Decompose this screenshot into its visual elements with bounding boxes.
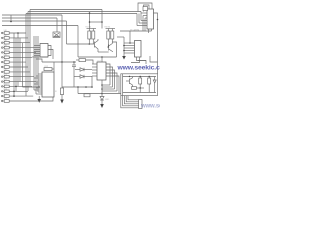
connector row 1 xyxy=(1,30,26,34)
wire stage link y22 xyxy=(90,21,103,23)
node mesh dot b xyxy=(15,86,17,88)
wire nested corner 3 xyxy=(124,96,138,104)
connector row 10 xyxy=(1,74,34,78)
wire U3 pin stub 2 xyxy=(143,15,147,17)
wire U4 left rail xyxy=(123,37,125,56)
wire R5 out xyxy=(86,60,94,64)
wire U4 bottom a xyxy=(137,57,147,64)
diode D3 xyxy=(153,80,156,83)
wire into bottom-left ground xyxy=(38,96,40,99)
resistor R4 (stage2 b) xyxy=(111,31,114,39)
wire U1 left pin 1 xyxy=(34,45,40,47)
node stage1 feed xyxy=(89,12,91,14)
wire U3 bottom pin b xyxy=(151,29,153,31)
wire R2 bottom xyxy=(92,39,94,44)
svg-text:IC 4069: IC 4069 xyxy=(130,28,140,32)
wire Q3 emitter xyxy=(130,83,133,88)
transistor Q2 xyxy=(108,45,110,51)
wire drop rail3 to Q1 base line xyxy=(66,21,68,44)
wire U4 pin 5 xyxy=(124,52,135,54)
wire top-left rail 1 xyxy=(2,14,62,16)
wire top bus line 2 xyxy=(28,11,141,13)
wire mid right corners a xyxy=(138,60,146,62)
wire U2 right pin 1 xyxy=(106,64,110,85)
wire D1 leads xyxy=(75,69,80,71)
IC U2 xyxy=(97,62,106,80)
node comb b xyxy=(101,88,103,90)
mesh vertical x20 xyxy=(19,38,21,82)
wire U5 pin 2 xyxy=(36,75,42,77)
wire U2 bottom drop xyxy=(101,80,103,96)
wire C1 plate bottom xyxy=(72,66,76,68)
wire Q3 base xyxy=(126,80,130,82)
wire top bus 3 left corner drop xyxy=(25,14,27,97)
wire D2 lead out xyxy=(84,76,92,78)
wire U5 pin 5 xyxy=(36,81,42,83)
wire staircase v x145 xyxy=(144,18,146,31)
connector row 2 xyxy=(1,35,28,39)
wire rail y62 xyxy=(42,61,76,63)
wire Q1 collector xyxy=(95,39,99,43)
wire U2 left pin 2 xyxy=(92,66,97,68)
wire U2 right pin 5 xyxy=(106,76,119,93)
wire U5 pin 11 xyxy=(36,93,42,95)
node Q3 top xyxy=(129,76,130,77)
wire block top rail xyxy=(123,76,156,78)
wire comb y87 xyxy=(102,86,113,88)
wire U4 pin 3 xyxy=(124,47,135,49)
wire U4 pin 2 xyxy=(124,45,135,47)
wire U2 right pin 4 xyxy=(106,73,117,91)
wire U5 top tie xyxy=(53,62,55,72)
wire staircase v x139 xyxy=(138,14,140,24)
node Q2 base node xyxy=(108,46,110,48)
wire R4 top stub xyxy=(111,29,113,32)
wire R6 down xyxy=(61,95,63,100)
left input rows xyxy=(1,30,36,102)
wire D1 bar xyxy=(83,68,85,71)
resistor R5 xyxy=(79,59,86,62)
wire U5 pin 8 xyxy=(36,87,42,89)
wire R5 in xyxy=(76,59,79,61)
wire U4 feed drop xyxy=(129,31,131,43)
wire U3 pin stub 4 xyxy=(141,20,147,22)
wire R9 stubs xyxy=(148,77,150,79)
capacitor C5 (top of U3) xyxy=(143,7,148,11)
wire Q2 emitter xyxy=(109,49,113,52)
wire stage2 top rail xyxy=(106,28,116,30)
node block top b xyxy=(149,76,150,77)
wire U3 top loop inner xyxy=(144,5,150,12)
transistor Q3 xyxy=(129,79,131,85)
wire U5 pin 3 xyxy=(34,77,42,79)
resistor R8 xyxy=(139,78,142,84)
wire U1 left pin 4 xyxy=(34,51,40,53)
IC U5 (main chip) xyxy=(42,72,54,97)
wire U3 pin stub 1 xyxy=(141,12,147,14)
wire U4 pin 1 xyxy=(124,42,135,44)
ground arrow bottom center xyxy=(100,104,104,108)
wire corner into rail y62 xyxy=(36,59,42,62)
connector row 4 xyxy=(1,45,34,49)
mesh vertical x38 xyxy=(37,36,39,92)
wire R1 top stub xyxy=(88,29,90,32)
mesh vertical x22 xyxy=(22,43,24,87)
wire U2 right pin 3 xyxy=(106,70,115,89)
wire Q1 base line xyxy=(67,43,95,45)
node bottom drop xyxy=(101,93,103,95)
wire U4 approach xyxy=(117,36,124,38)
node mesh dot d xyxy=(17,32,19,34)
mesh vertical x14 xyxy=(13,33,15,96)
wire U1 under bar xyxy=(32,56,48,58)
wire crystal internals xyxy=(54,33,59,37)
wire D1 lead out xyxy=(84,69,92,71)
connector row 14 xyxy=(1,93,33,97)
wire nested corner 4 xyxy=(126,96,138,102)
wire C1 down xyxy=(73,67,75,87)
wire D3 down xyxy=(154,83,156,93)
wire R9 bottom xyxy=(148,84,150,93)
wire block bottom rail xyxy=(123,92,156,94)
wire nested corner 5 xyxy=(128,96,139,100)
wire top-left rail 3 xyxy=(2,20,67,22)
connector row 8 xyxy=(1,64,28,68)
resistor R1 (stage1 a) xyxy=(88,31,91,39)
wire x62 long drop xyxy=(61,62,63,88)
wire U2 left pin 3 xyxy=(92,69,97,71)
capacitor C1 on x74 xyxy=(73,62,75,65)
node stage2 link xyxy=(101,21,103,23)
lower-right block frame xyxy=(121,74,158,96)
wire R7 right stub xyxy=(52,68,54,70)
wire C1 plate top xyxy=(72,64,76,66)
resistor R7 above U5 xyxy=(44,68,52,71)
wire U3 pin stub 3 xyxy=(145,17,147,19)
wire top-left rail 4 xyxy=(2,25,78,27)
node rail62 b xyxy=(73,61,75,63)
wire LED1 down xyxy=(101,100,103,104)
wire R3 top stub xyxy=(107,29,109,32)
node rail57 xyxy=(101,56,103,58)
svg-text:R1 R2: R1 R2 xyxy=(86,27,93,29)
wire comb y91 xyxy=(102,90,117,92)
wire Q3 collector xyxy=(130,77,133,80)
wire U5 pin 6 xyxy=(34,83,42,85)
wire staircase v x143 xyxy=(142,16,144,32)
wire nested corner 2 xyxy=(123,96,139,106)
wire R8 bottom xyxy=(139,84,141,93)
wire Q1 emitter run xyxy=(98,51,109,53)
wire U4 bottom b xyxy=(131,57,140,63)
wire rail y93.5 xyxy=(78,93,121,95)
mesh vertical x36 xyxy=(35,36,37,94)
wire stub x11 xyxy=(10,15,12,22)
wire D2 bar xyxy=(83,75,85,78)
resistor R2 (stage1 b) xyxy=(92,31,95,39)
crystal Y1 xyxy=(53,32,60,38)
wire D2 leads xyxy=(74,76,80,78)
node rail87 b xyxy=(85,86,87,88)
connector row 5 xyxy=(1,50,36,54)
mesh vertical x18 xyxy=(17,33,19,86)
connector row 3 xyxy=(1,40,30,44)
wire R8 stubs xyxy=(139,77,141,79)
connector row 6 xyxy=(1,55,32,59)
svg-text:www.seekic.com: www.seekic.com xyxy=(117,65,161,72)
wire corner x22 to right xyxy=(23,86,41,88)
wire R4 bottom xyxy=(111,39,113,42)
connector row 13 xyxy=(1,89,28,93)
IC U4 xyxy=(135,41,142,58)
node rail87 a xyxy=(77,86,79,88)
svg-text:LED: LED xyxy=(105,99,110,101)
node stage1 link xyxy=(89,21,91,23)
wire U1 left pin 2 xyxy=(34,47,40,49)
connector row 7 xyxy=(1,59,26,63)
wire U3 bottom pin a xyxy=(148,29,150,33)
connector row 9 xyxy=(1,69,30,73)
wire comb y89 xyxy=(102,88,115,90)
wire nested corner 1 xyxy=(121,96,139,108)
connector row 11 xyxy=(1,79,36,83)
svg-text:R: R xyxy=(55,91,57,93)
node Q1 base node xyxy=(89,43,91,45)
connector row 12 xyxy=(1,84,32,88)
wire top bus line 1 xyxy=(30,9,102,11)
node block top a xyxy=(140,76,141,77)
wire top bus 2 left corner drop xyxy=(27,12,29,92)
IC U1 (decoder) xyxy=(40,44,48,58)
wire mid right corners b xyxy=(150,56,158,62)
wire U3 top loop outer xyxy=(138,3,152,12)
wire comb y85 xyxy=(102,84,110,86)
wire U1 right pin bar xyxy=(48,46,51,56)
svg-text:R3 R4: R3 R4 xyxy=(105,27,112,29)
diode D2 xyxy=(80,75,84,78)
wire top-left rail 2 xyxy=(2,17,57,19)
connector row 15 xyxy=(1,98,9,102)
ground arrow under R6 xyxy=(60,100,64,104)
wire U2 left pin 1 xyxy=(92,63,97,65)
wire U3 pin stub 5 xyxy=(139,22,147,24)
wire staircase v x141b xyxy=(140,12,142,21)
node rail87 c xyxy=(91,86,93,88)
node junction (11,22) xyxy=(10,21,12,23)
wire U1 left pin 6 xyxy=(34,55,40,57)
wire top bus line 3 xyxy=(26,13,137,15)
resistor R10 in block xyxy=(132,87,137,90)
transistor Q1 xyxy=(94,42,96,48)
IC U3 xyxy=(147,9,154,29)
wire R3 bottom xyxy=(107,39,109,47)
wire Q2 out drop xyxy=(116,44,118,57)
wire right edge rail xyxy=(157,20,159,74)
wire rail y31 xyxy=(120,30,152,32)
mesh vertical x34 xyxy=(33,36,35,90)
diode LED1 xyxy=(100,97,104,101)
wire rail y87 xyxy=(62,86,92,88)
wire U2 left pin 4 xyxy=(92,72,97,74)
wire Q2 collector tie xyxy=(112,42,116,44)
wire bus1 drop to stage2 xyxy=(101,10,103,29)
node comb a xyxy=(101,84,103,86)
node U4 rail a xyxy=(123,45,125,47)
wire U1 right pin mid xyxy=(48,50,53,60)
wire U1 left pin 5 xyxy=(34,53,40,55)
wire U2 right pin 2 xyxy=(106,67,113,87)
resistor R3 (stage2 a) xyxy=(107,31,110,39)
node block link xyxy=(140,87,141,88)
node mesh dot a xyxy=(13,91,15,93)
wire top bus 1 left corner drop xyxy=(29,10,31,87)
wire U3 pin stub 6 xyxy=(137,25,147,27)
diode D1 xyxy=(80,68,84,71)
connector J2 bottom right xyxy=(139,100,142,109)
wire R1 bottom xyxy=(88,39,90,44)
resistor R9 xyxy=(148,78,151,84)
wire drop from rail 1 at x62 down to node rail xyxy=(61,15,63,62)
wire R2 top stub xyxy=(92,29,94,32)
wire drop rail2 to crystal xyxy=(56,18,58,32)
wire stage1 top rail xyxy=(87,28,97,30)
capacitor C2 xyxy=(84,94,90,97)
wire block inner left xyxy=(122,74,124,96)
wire stage1 feed from bus xyxy=(89,13,91,29)
mesh vertical x16 xyxy=(15,38,17,91)
wire U5 pin rows xyxy=(38,73,42,75)
wire block mid link xyxy=(133,87,145,89)
wire bottom row long xyxy=(9,97,53,101)
wire U1 left pin 3 xyxy=(34,49,40,51)
node rail62 a xyxy=(61,61,63,63)
ground arrow under U4 rail xyxy=(122,56,126,60)
node right edge xyxy=(157,19,159,21)
wire U2 top stub xyxy=(101,57,103,62)
node U4 feed xyxy=(129,42,131,44)
wire U2 left pin 5 xyxy=(92,75,97,77)
wire right edge drop xyxy=(154,13,158,20)
wire U5 pin 10 xyxy=(38,91,42,93)
node U4 rail b xyxy=(123,50,125,52)
resistor R6 vertical xyxy=(60,88,63,95)
wire U5 pin 4 xyxy=(38,79,42,81)
wire Q2 collector xyxy=(109,42,113,46)
svg-text:www.seekic.com: www.seekic.com xyxy=(140,104,160,110)
wire U5 pin 9 xyxy=(34,89,42,91)
wire drop x78 xyxy=(77,87,79,94)
wire LED1 bar xyxy=(100,99,104,101)
node mesh dot c xyxy=(13,95,15,97)
wire U4 pin 4 xyxy=(124,50,135,52)
wire staircase v x137 xyxy=(136,14,138,26)
wire U5 pin 7 xyxy=(38,85,42,87)
wire U2 pin5 drop to rail87 xyxy=(91,76,93,87)
wire D3 stub xyxy=(154,77,156,81)
wire Q1 emitter xyxy=(95,46,99,52)
wire rail y57 xyxy=(78,56,117,58)
wire drop x78 from bus xyxy=(77,26,79,58)
ground arrow bottom-left xyxy=(37,99,41,103)
